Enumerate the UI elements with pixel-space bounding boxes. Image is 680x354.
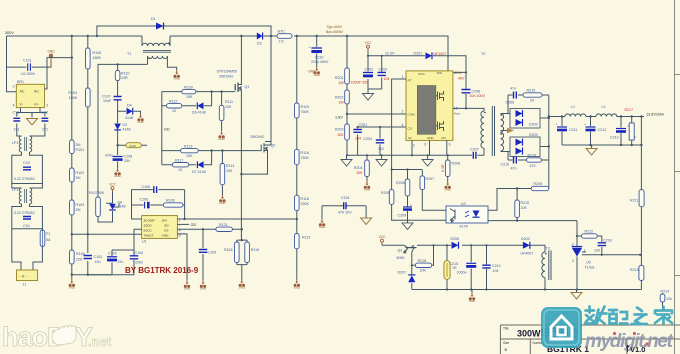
svg-text:R101: R101 xyxy=(76,148,85,152)
IC U1 controller xyxy=(142,216,181,244)
node GD stub xyxy=(177,223,189,225)
diode D201 xyxy=(414,52,447,60)
ground below C108 xyxy=(114,168,120,179)
resistor R112 xyxy=(167,100,182,114)
snubber C210 R216 xyxy=(501,152,549,171)
resistor R203 xyxy=(335,124,349,140)
svg-text:10R: 10R xyxy=(121,76,128,80)
capacitor C207 xyxy=(470,148,479,159)
svg-text:10K: 10K xyxy=(356,171,363,175)
resistor R210 xyxy=(515,189,529,222)
resistor R206 xyxy=(396,179,410,196)
svg-text:R119: R119 xyxy=(251,248,259,252)
svg-text:CX1: CX1 xyxy=(23,224,30,228)
svg-text:Q3: Q3 xyxy=(398,249,403,253)
connector J1 AC inlet xyxy=(17,270,38,287)
fusible resistor F2 xyxy=(444,245,457,289)
svg-text:2.5: 2.5 xyxy=(279,40,284,44)
capacitor C208 boot xyxy=(462,90,486,99)
svg-text:10: 10 xyxy=(178,168,182,172)
svg-text:J1: J1 xyxy=(22,283,26,287)
svg-text:10: 10 xyxy=(172,109,176,113)
svg-text:TL431: TL431 xyxy=(585,266,595,270)
svg-text:C209: C209 xyxy=(398,214,407,218)
watermark haoDIY.net xyxy=(2,322,112,352)
svg-text:C110: C110 xyxy=(315,56,323,60)
center tap arrow xyxy=(501,128,515,133)
ground aux brown xyxy=(469,293,475,304)
capacitor C110 bulk xyxy=(309,36,329,67)
svg-text:D6 4148: D6 4148 xyxy=(192,111,206,115)
sheet border right xyxy=(675,0,680,354)
svg-text:817A: 817A xyxy=(460,225,469,229)
svg-text:R106: R106 xyxy=(166,199,175,203)
svg-text:1M: 1M xyxy=(339,81,344,85)
svg-text:R204: R204 xyxy=(354,166,363,170)
svg-text:24: 24 xyxy=(530,99,534,103)
svg-text:CX2: CX2 xyxy=(23,161,30,165)
snubber C206 R215 xyxy=(506,87,549,114)
svg-text:CY2: CY2 xyxy=(41,111,48,115)
capacitor CX1 box xyxy=(12,204,43,229)
svg-text:U1: U1 xyxy=(142,240,147,244)
junction dots on bus xyxy=(71,35,349,37)
resistor R118 sense xyxy=(224,240,247,279)
svg-text:0.22 275VAC: 0.22 275VAC xyxy=(14,211,36,215)
resistor R106a xyxy=(68,88,90,107)
resistor R108 xyxy=(70,250,85,264)
svg-text:R118: R118 xyxy=(301,197,309,201)
ground GND near C101 xyxy=(47,50,55,68)
svg-text:R203: R203 xyxy=(335,128,344,132)
svg-text:10K: 10K xyxy=(337,133,344,137)
svg-text:750K: 750K xyxy=(301,156,310,160)
svg-text:NTC: NTC xyxy=(278,30,286,34)
svg-text:22K: 22K xyxy=(76,258,83,262)
diode D1 xyxy=(151,17,164,30)
svg-text:C207: C207 xyxy=(470,148,479,152)
svg-text:R211: R211 xyxy=(630,199,638,203)
wire opto right pins xyxy=(488,189,577,221)
wire left rail to bridge xyxy=(7,36,17,92)
svg-text:R213: R213 xyxy=(630,268,639,272)
svg-text:10k: 10k xyxy=(666,297,672,301)
svg-text:+: + xyxy=(584,123,586,127)
transformer T2 primary xyxy=(481,111,484,148)
choke LF1 xyxy=(12,184,43,205)
svg-text:GND: GND xyxy=(308,70,316,74)
svg-text:C206: C206 xyxy=(506,101,515,105)
resistor R117 xyxy=(172,158,188,172)
capacitor C202 xyxy=(351,56,382,94)
capacitor C212 xyxy=(584,117,606,146)
svg-text:T1: T1 xyxy=(127,52,131,56)
wire Vout to primary xyxy=(453,108,484,111)
wire BR1 pin1 riser xyxy=(45,58,72,89)
svg-text:25K2942: 25K2942 xyxy=(250,135,264,139)
svg-text:T3: T3 xyxy=(546,247,550,251)
resistor R118b xyxy=(295,195,310,210)
svg-text:2M: 2M xyxy=(76,143,81,147)
ground sense resistors xyxy=(239,279,245,290)
capacitor CY1 xyxy=(13,111,21,132)
capacitor C107 xyxy=(102,95,122,104)
svg-text:CY1: CY1 xyxy=(13,111,20,115)
svg-text:0.1R: 0.1R xyxy=(441,164,445,172)
svg-text:2: 2 xyxy=(13,85,15,89)
svg-text:R115: R115 xyxy=(301,105,309,109)
svg-text:103: 103 xyxy=(594,249,600,253)
ferrite bead L3 xyxy=(126,143,141,148)
wire chain x72 xyxy=(72,36,112,279)
resistor R207 xyxy=(420,176,434,190)
ground after D4 xyxy=(137,114,143,125)
svg-text:2: 2 xyxy=(413,144,415,148)
svg-text:25V: 25V xyxy=(124,159,131,163)
capacitor C103 comp xyxy=(132,185,185,193)
svg-text:14V: 14V xyxy=(456,71,463,75)
svg-text:U5: U5 xyxy=(586,261,591,265)
wire D1 snubber branch xyxy=(97,26,271,36)
svg-text:R107: R107 xyxy=(89,191,98,195)
svg-text:C106: C106 xyxy=(140,198,149,202)
wire CS row to U2 xyxy=(358,126,406,128)
svg-text:R202: R202 xyxy=(335,96,344,100)
diode D6 xyxy=(192,102,206,114)
svg-text:COM: COM xyxy=(408,113,416,117)
svg-text:C210: C210 xyxy=(501,163,510,167)
wire BR1 bottom pins xyxy=(17,108,47,136)
svg-text:R218: R218 xyxy=(418,259,427,263)
rectifier D203 dual diode xyxy=(510,133,540,157)
svg-text:R117: R117 xyxy=(175,158,183,162)
svg-text:R110: R110 xyxy=(121,72,129,76)
resistor R205 xyxy=(381,190,394,205)
svg-text:R217: R217 xyxy=(625,108,634,112)
diode D8 xyxy=(109,201,125,211)
svg-text:300V: 300V xyxy=(5,31,14,35)
svg-text:BY BG1TRK 2016-9: BY BG1TRK 2016-9 xyxy=(125,266,199,275)
wire U1 DIV long rail xyxy=(177,218,296,220)
wire MULT rail to U1 xyxy=(72,233,142,235)
wire U1 GS row with resistor R121 xyxy=(177,228,241,230)
resistor R120 xyxy=(295,234,311,249)
capacitor C109 xyxy=(199,228,216,280)
svg-text:R116: R116 xyxy=(301,151,309,155)
ground earth between CY1 CY2 xyxy=(27,119,38,126)
svg-text:R215: R215 xyxy=(527,89,536,93)
svg-text:8: 8 xyxy=(454,71,456,75)
svg-text:R105: R105 xyxy=(93,51,102,55)
svg-text:C104: C104 xyxy=(135,251,144,255)
svg-text:D3: D3 xyxy=(123,123,128,127)
resistor R201 xyxy=(335,68,349,85)
svg-text:D201: D201 xyxy=(414,52,423,56)
resistor R107 xyxy=(89,191,105,217)
wire U1 GND row xyxy=(177,234,187,280)
svg-text:4: 4 xyxy=(402,123,404,127)
svg-text:C109: C109 xyxy=(208,251,217,255)
svg-text:~ N ~: ~ N ~ xyxy=(19,275,27,279)
svg-text:102: 102 xyxy=(378,147,384,151)
svg-text:10K: 10K xyxy=(226,169,233,173)
diode D7 xyxy=(192,161,206,174)
mosfet lower inside U2 xyxy=(436,121,444,131)
svg-text:C103: C103 xyxy=(108,252,117,256)
transformer T1 aux winding xyxy=(148,56,177,70)
resistor R105 xyxy=(86,48,102,69)
svg-text:R121: R121 xyxy=(219,223,228,227)
wire Q2 source xyxy=(241,157,267,174)
resistor R211 xyxy=(630,190,644,207)
shunt regulator U5 TL431 xyxy=(572,243,595,290)
capacitor CX2 box xyxy=(12,152,43,184)
zener D207 xyxy=(398,265,416,289)
wire Q1 source long rail xyxy=(240,96,242,240)
resistor R208 current sense xyxy=(441,160,460,181)
resistor R109 xyxy=(182,85,196,99)
svg-text:104: 104 xyxy=(493,269,499,273)
svg-text:10K: 10K xyxy=(521,206,528,210)
svg-text:1R: 1R xyxy=(452,266,457,270)
svg-text:CS: CS xyxy=(408,127,412,131)
svg-text:180K: 180K xyxy=(93,56,102,60)
ground C110 xyxy=(308,67,320,78)
resistor R110 xyxy=(115,71,129,81)
wire secondary to rectifiers xyxy=(501,114,511,152)
capacitor C104 xyxy=(130,251,143,265)
shunt R217 xyxy=(625,108,636,145)
svg-text:L2: L2 xyxy=(602,105,606,109)
resistor R209 xyxy=(531,182,549,191)
svg-text:750K: 750K xyxy=(301,110,310,114)
resistor R116 xyxy=(295,149,310,164)
svg-text:10K: 10K xyxy=(186,154,193,158)
resistor R202 xyxy=(335,90,349,105)
svg-text:1000u: 1000u xyxy=(457,271,467,275)
resistor R204 xyxy=(354,160,369,181)
svg-text:470u: 470u xyxy=(105,154,113,158)
svg-text:R214: R214 xyxy=(661,290,670,294)
svg-text:C102: C102 xyxy=(94,255,103,259)
svg-text:GND: GND xyxy=(162,234,170,238)
svg-text:3: 3 xyxy=(572,243,574,247)
svg-text:3COMP: 3COMP xyxy=(144,218,155,222)
choke LP1 xyxy=(19,136,31,152)
watermark mydigit text xyxy=(585,307,672,325)
svg-text:C214: C214 xyxy=(492,264,501,268)
svg-text:S2: S2 xyxy=(408,136,412,140)
svg-text:8050: 8050 xyxy=(397,256,405,260)
svg-text:40V: 40V xyxy=(458,77,465,81)
svg-text:180K: 180K xyxy=(69,96,78,100)
svg-text:.net: .net xyxy=(88,334,112,349)
diode D4 xyxy=(118,104,141,121)
svg-text:R201: R201 xyxy=(335,76,344,80)
ground C116 right earth xyxy=(361,218,372,225)
svg-text:47u: 47u xyxy=(510,87,516,91)
svg-text:R111: R111 xyxy=(225,100,233,104)
svg-text:R102: R102 xyxy=(76,171,85,175)
diode D2 xyxy=(257,33,263,46)
wire output gnd rail xyxy=(562,117,641,190)
svg-text:R113: R113 xyxy=(184,144,192,148)
svg-text:1: 1 xyxy=(402,75,404,79)
transformer T1 core xyxy=(143,50,171,52)
power VCC symbol llc xyxy=(365,41,372,51)
svg-text:+: + xyxy=(309,46,311,50)
svg-text:R208: R208 xyxy=(452,162,461,166)
svg-text:R104: R104 xyxy=(68,91,77,95)
power VCC symbol q3 xyxy=(379,235,386,245)
resistor R213 xyxy=(630,265,644,280)
ground R204 xyxy=(364,181,370,192)
svg-text:R109: R109 xyxy=(184,85,193,89)
svg-text:4148: 4148 xyxy=(125,116,133,120)
ground R114 xyxy=(219,195,225,206)
thermistor NTC xyxy=(277,30,292,44)
wire chain x88 xyxy=(87,36,89,275)
ground output earth xyxy=(586,149,597,156)
svg-text:F1: F1 xyxy=(46,232,50,236)
wire T2 primary bottom via C207 xyxy=(470,148,484,155)
svg-text:271: 271 xyxy=(14,128,20,132)
wire rectifier cathodes xyxy=(540,95,549,189)
svg-text:Size: Size xyxy=(503,341,509,345)
resistor R115 xyxy=(295,103,310,118)
ground C116 left xyxy=(319,219,325,230)
resistor R121 xyxy=(216,223,233,232)
svg-text:2M: 2M xyxy=(76,176,81,180)
capacitor C215 xyxy=(449,245,476,289)
svg-text:C116: C116 xyxy=(341,196,349,200)
ground aux winding return xyxy=(174,70,180,81)
svg-text:Bus=500W: Bus=500W xyxy=(326,30,343,34)
svg-text:10n: 10n xyxy=(95,260,101,264)
capacitor C211 xyxy=(556,117,578,146)
svg-text:GD: GD xyxy=(191,223,197,227)
wire pin1 RT chain xyxy=(392,79,446,223)
svg-text:2: 2 xyxy=(572,259,574,263)
svg-text:R216: R216 xyxy=(528,154,537,158)
svg-text:D2: D2 xyxy=(257,42,262,46)
svg-text:1.8V: 1.8V xyxy=(335,116,343,120)
svg-text:100n: 100n xyxy=(135,261,143,265)
ground C202 earth xyxy=(363,94,374,101)
svg-text:GS: GS xyxy=(164,229,168,233)
ground R208 xyxy=(445,181,451,192)
svg-text:1M: 1M xyxy=(339,101,344,105)
svg-text:LP1: LP1 xyxy=(12,141,18,145)
svg-text:R118: R118 xyxy=(224,248,232,252)
svg-text:R114: R114 xyxy=(226,164,234,168)
svg-text:GND: GND xyxy=(427,136,435,140)
svg-text:R206: R206 xyxy=(396,181,405,185)
svg-text:13.8V/20A: 13.8V/20A xyxy=(646,113,664,117)
svg-text:UF1007: UF1007 xyxy=(434,52,447,56)
svg-text:D207: D207 xyxy=(398,271,407,275)
svg-text:220UF 25V: 220UF 25V xyxy=(351,81,370,85)
svg-text:V+: V+ xyxy=(34,103,39,107)
wire COM row to U2 xyxy=(347,113,406,115)
fuse F1 xyxy=(40,229,51,247)
svg-text:RT: RT xyxy=(408,79,412,83)
svg-text:+: + xyxy=(556,123,558,127)
wire GD rail xyxy=(161,92,163,165)
svg-text:LF1: LF1 xyxy=(12,188,18,192)
svg-text:R112: R112 xyxy=(169,100,177,104)
svg-text:2: 2 xyxy=(402,110,404,114)
capacitor C218 xyxy=(594,239,612,253)
svg-text:4148: 4148 xyxy=(129,144,136,148)
wire aux gnd rail xyxy=(412,290,642,293)
svg-text:BR1: BR1 xyxy=(17,80,24,84)
svg-text:10K: 10K xyxy=(186,95,193,99)
revision V1.0 xyxy=(626,346,629,353)
resistor R218 xyxy=(411,245,434,272)
inductor L1 xyxy=(565,105,586,117)
wire aux rail xyxy=(98,64,148,200)
svg-text:104: 104 xyxy=(384,77,390,81)
svg-text:D7 4148: D7 4148 xyxy=(192,170,206,174)
svg-text:R119: R119 xyxy=(302,236,310,240)
svg-text:R207: R207 xyxy=(426,177,435,181)
svg-text:UVlo: UVlo xyxy=(418,72,425,76)
diode D204 xyxy=(521,237,535,256)
wire VCC caps of U1 xyxy=(88,229,142,274)
svg-text:10K: 10K xyxy=(420,269,427,273)
svg-text:10nF: 10nF xyxy=(103,99,112,103)
inductor L2 xyxy=(596,105,617,117)
transistor Q1 xyxy=(217,36,250,96)
svg-text:D206: D206 xyxy=(451,237,460,241)
diode D3 xyxy=(114,123,130,132)
resistor R113 xyxy=(181,144,199,158)
resistor R103 xyxy=(70,200,85,215)
svg-text:L1: L1 xyxy=(571,105,575,109)
svg-text:Typ=400V: Typ=400V xyxy=(327,25,343,29)
resistor R119 sense xyxy=(245,242,259,263)
svg-text:PG: PG xyxy=(442,136,447,140)
transistor Q2 xyxy=(250,36,275,157)
ground R111 xyxy=(218,131,224,142)
wire R112 row xyxy=(162,92,212,106)
svg-text:3: 3 xyxy=(424,143,426,147)
ground earth triangles under U2 xyxy=(341,160,352,167)
svg-text:4148: 4148 xyxy=(118,205,126,209)
svg-text:GD: GD xyxy=(164,128,170,132)
svg-text:AC: AC xyxy=(34,90,39,94)
svg-text:470: 470 xyxy=(530,164,536,168)
svg-text:Title: Title xyxy=(503,327,509,331)
svg-text:5A: 5A xyxy=(46,238,51,242)
ground aux earth xyxy=(571,293,582,300)
ground below R108 rail xyxy=(69,279,75,290)
svg-text:9: 9 xyxy=(449,143,451,147)
resistor R111 xyxy=(219,92,233,131)
svg-text:1ZCD: 1ZCD xyxy=(144,224,153,228)
svg-text:VDL: VDL xyxy=(437,71,443,75)
svg-text:47n: 47n xyxy=(511,167,517,171)
svg-text:R210: R210 xyxy=(521,201,530,205)
capacitor C103b electrolytic xyxy=(107,252,124,265)
svg-text:C211: C211 xyxy=(569,128,577,132)
svg-text:GND: GND xyxy=(47,50,55,54)
svg-text:R209: R209 xyxy=(534,182,543,186)
wire output rail xyxy=(549,116,644,118)
capacitor C101 xyxy=(7,59,52,77)
transformer T2 core xyxy=(492,106,494,156)
